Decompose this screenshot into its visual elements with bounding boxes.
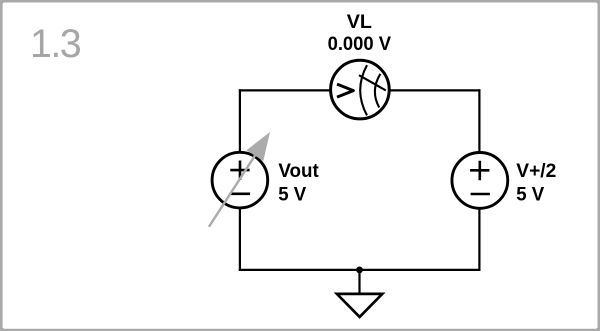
wire: bottom segment xyxy=(239,269,481,271)
voltage source V2 minus xyxy=(471,193,490,196)
svg-text:VL: VL xyxy=(347,11,372,33)
voltage source V2 plus xyxy=(470,161,489,181)
voltmeter M1 scale arc right xyxy=(375,74,381,108)
wire: left upper segment xyxy=(239,89,241,152)
voltage source V1 body xyxy=(212,152,268,208)
svg-text:1.3: 1.3 xyxy=(30,22,81,66)
voltage source V1 plus xyxy=(230,161,249,181)
wire: left lower segment xyxy=(239,208,241,271)
svg-text:V+/2: V+/2 xyxy=(516,160,556,182)
voltmeter M1 needle xyxy=(359,75,386,90)
voltmeter M1 body xyxy=(331,60,390,119)
voltage source V1 minus xyxy=(231,193,250,196)
wire: right lower segment xyxy=(478,209,480,271)
junction node xyxy=(356,267,363,274)
voltage source V2 body xyxy=(452,153,508,209)
svg-text:Vout: Vout xyxy=(278,160,319,182)
wire: right upper segment xyxy=(478,89,480,152)
svg-text:5 V: 5 V xyxy=(278,183,307,205)
ground symbol xyxy=(337,294,382,317)
voltage source V1 variable arrow xyxy=(209,132,270,227)
wire: top-left segment xyxy=(239,89,331,91)
voltmeter M1 greater-than mark xyxy=(337,84,353,97)
ground stub wire xyxy=(358,270,360,294)
voltmeter M1 scale arc left xyxy=(360,65,367,115)
svg-text:5 V: 5 V xyxy=(516,183,545,205)
svg-text:0.000 V: 0.000 V xyxy=(328,33,392,55)
wire: top-right segment xyxy=(390,89,481,91)
